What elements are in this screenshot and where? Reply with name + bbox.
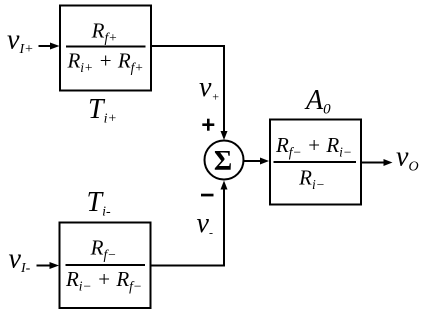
svg-text:Σ: Σ	[214, 146, 232, 177]
